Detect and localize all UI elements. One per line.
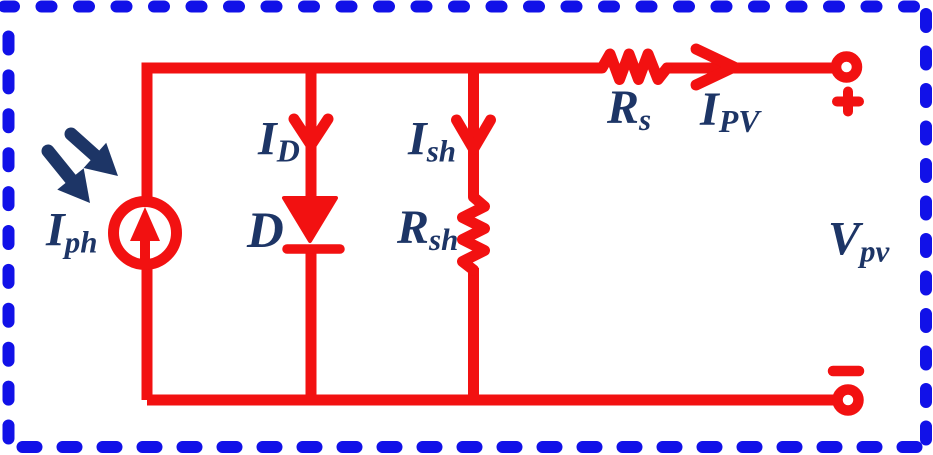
svg-text:D: D — [246, 203, 284, 259]
